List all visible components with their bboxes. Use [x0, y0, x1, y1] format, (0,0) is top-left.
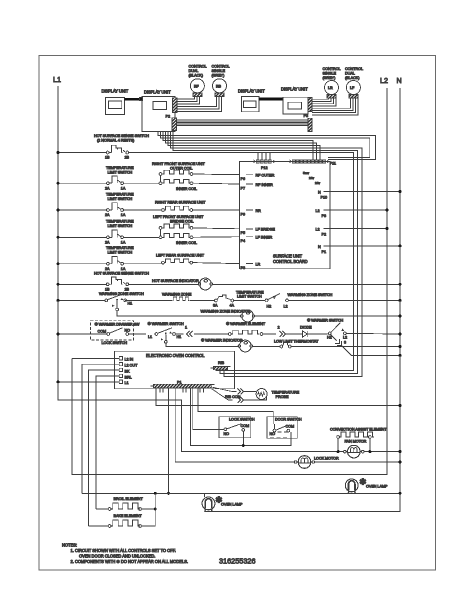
svg-text:COM: COM	[241, 424, 250, 428]
svg-text:P9: P9	[241, 212, 245, 216]
svg-text:N: N	[318, 191, 321, 195]
svg-text:CONTROL: CONTROL	[323, 67, 341, 71]
svg-text:L2: L2	[316, 228, 320, 232]
svg-text:2A: 2A	[105, 241, 110, 245]
svg-text:LIMIT SWITCH: LIMIT SWITCH	[108, 170, 133, 174]
svg-text:BAKE ELEMENT: BAKE ELEMENT	[114, 514, 143, 518]
svg-text:1. CIRCUIT SHOWN WITH ALL CON: 1. CIRCUIT SHOWN WITH ALL CONTROLS SET T…	[71, 548, 176, 553]
svg-text:✱ WARMER ELEMENT: ✱ WARMER ELEMENT	[226, 322, 266, 326]
svg-text:LOW LIMIT THERMOSTAT: LOW LIMIT THERMOSTAT	[274, 340, 319, 344]
svg-text:1A: 1A	[121, 241, 126, 245]
svg-text:RF OUTER: RF OUTER	[256, 174, 275, 178]
svg-text:WARMING ZONE SWITCH: WARMING ZONE SWITCH	[288, 293, 333, 297]
svg-text:TEMPERATURE: TEMPERATURE	[272, 390, 300, 394]
svg-text:2B: 2B	[125, 156, 130, 160]
svg-text:HOT SURFACE SENSE SWITCH: HOT SURFACE SENSE SWITCH	[94, 134, 149, 138]
svg-text:P1: P1	[177, 380, 181, 384]
svg-text:H2: H2	[327, 335, 332, 339]
svg-text:LEFT FRONT SURFACE UNIT: LEFT FRONT SURFACE UNIT	[153, 215, 204, 219]
svg-text:FAN MOTOR: FAN MOTOR	[345, 440, 367, 444]
svg-text:NO: NO	[125, 329, 131, 333]
svg-text:CONVECTION ASSIST ELEMENT: CONVECTION ASSIST ELEMENT	[330, 428, 387, 432]
svg-text:2A: 2A	[105, 213, 110, 217]
svg-text:LR: LR	[328, 86, 333, 90]
svg-text:✱ WARMER SWITCH: ✱ WARMER SWITCH	[148, 322, 185, 326]
svg-text:1B: 1B	[105, 156, 110, 160]
svg-text:DUAL: DUAL	[345, 72, 355, 76]
svg-text:LIMIT SWITCH: LIMIT SWITCH	[108, 251, 133, 255]
svg-text:TEMPERATURE: TEMPERATURE	[106, 219, 134, 223]
svg-text:WARMING ZONE: WARMING ZONE	[162, 293, 192, 297]
svg-text:LR: LR	[256, 262, 261, 266]
svg-text:NO: NO	[270, 432, 276, 436]
svg-text:PROBE: PROBE	[276, 395, 289, 399]
svg-text:L2 OUT: L2 OUT	[125, 364, 139, 368]
svg-text:LF INNER: LF INNER	[256, 235, 273, 239]
svg-text:DISPLAY UNIT: DISPLAY UNIT	[281, 86, 308, 91]
svg-text:N: N	[318, 245, 321, 249]
svg-text:NOTES:: NOTES:	[62, 543, 77, 548]
svg-text:P10: P10	[321, 196, 328, 200]
svg-text:P3: P3	[241, 266, 245, 270]
svg-text:BK: BK	[125, 369, 130, 373]
svg-text:P1: P1	[322, 250, 326, 254]
svg-text:RIGHT FRONT SURFACE UNIT: RIGHT FRONT SURFACE UNIT	[152, 162, 206, 166]
svg-text:3: 3	[344, 341, 346, 345]
svg-text:LIMIT SWITCH: LIMIT SWITCH	[237, 295, 262, 299]
svg-text:L1: L1	[125, 381, 129, 385]
svg-text:RIB: RIB	[218, 361, 225, 365]
svg-text:CONTROL: CONTROL	[345, 67, 363, 71]
svg-text:(2 NORMAL 4 RESTS): (2 NORMAL 4 RESTS)	[97, 139, 135, 143]
svg-text:LIMIT SWITCH: LIMIT SWITCH	[108, 224, 133, 228]
svg-text:TEMPERATURE: TEMPERATURE	[106, 166, 134, 170]
svg-text:L2 IN: L2 IN	[125, 358, 134, 362]
svg-text:1B: 1B	[105, 288, 110, 292]
svg-text:RR: RR	[256, 209, 262, 213]
svg-text:H1: H1	[128, 302, 133, 306]
svg-text:OVEN LAMP: OVEN LAMP	[221, 503, 243, 507]
svg-text:P2: P2	[166, 114, 170, 118]
svg-text:INNER COIL: INNER COIL	[176, 187, 197, 191]
svg-text:SINGLE: SINGLE	[323, 72, 337, 76]
svg-text:RF INNER: RF INNER	[256, 183, 274, 187]
svg-text:TEMPERATURE: TEMPERATURE	[106, 193, 134, 197]
svg-text:SINGLE: SINGLE	[212, 69, 226, 73]
svg-text:P3: P3	[304, 114, 308, 118]
svg-text:P12: P12	[261, 166, 268, 170]
svg-text:(GREY): (GREY)	[212, 74, 226, 78]
svg-text:3A: 3A	[213, 304, 218, 308]
svg-text:HOT SURFACE SENSE SWITCH: HOT SURFACE SENSE SWITCH	[94, 272, 149, 276]
svg-text:L1: L1	[53, 75, 61, 84]
svg-text:(BLACK): (BLACK)	[189, 74, 204, 78]
svg-text:L2: L2	[284, 305, 288, 309]
svg-text:2. COMPONENTS WITH ✱ DO NOT: 2. COMPONENTS WITH ✱ DO NOT APPEAR ON AL…	[71, 559, 188, 564]
svg-text:DISPLAY UNIT: DISPLAY UNIT	[144, 89, 171, 94]
svg-text:DISPLAY UNIT: DISPLAY UNIT	[238, 89, 265, 94]
svg-text:BROIL ELEMENT: BROIL ELEMENT	[114, 497, 144, 501]
svg-text:(BLACK): (BLACK)	[345, 76, 360, 80]
svg-text:WARMING ZONE SWITCH: WARMING ZONE SWITCH	[99, 292, 144, 296]
svg-text:1A: 1A	[121, 267, 126, 271]
svg-text:DOOR SWITCH: DOOR SWITCH	[275, 418, 302, 422]
svg-text:H1: H1	[177, 335, 182, 339]
svg-text:(GREY): (GREY)	[323, 76, 337, 80]
svg-text:L2: L2	[316, 209, 320, 213]
svg-text:CONTROL: CONTROL	[189, 65, 207, 69]
svg-text:P6: P6	[241, 177, 245, 181]
svg-text:RB: RB	[216, 85, 222, 89]
svg-text:2A: 2A	[105, 186, 110, 190]
svg-text:2B: 2B	[125, 288, 130, 292]
svg-text:2: 2	[278, 326, 280, 330]
svg-text:4A: 4A	[230, 304, 235, 308]
svg-text:1A: 1A	[121, 186, 126, 190]
svg-text:N: N	[397, 76, 402, 85]
svg-text:DISPLAY UNIT: DISPLAY UNIT	[102, 89, 129, 94]
svg-text:✱ WARMER INDICATOR: ✱ WARMER INDICATOR	[201, 338, 243, 342]
svg-text:LEFT REAR SURFACE UNIT: LEFT REAR SURFACE UNIT	[156, 253, 205, 257]
svg-text:1A: 1A	[121, 213, 126, 217]
svg-text:HOT SURFACE INDICATOR: HOT SURFACE INDICATOR	[152, 279, 199, 283]
svg-text:INNER COIL: INNER COIL	[176, 241, 197, 245]
svg-text:OVEN LAMP: OVEN LAMP	[366, 484, 388, 488]
svg-text:24v: 24v	[309, 176, 314, 180]
svg-text:OVEN DOOR CLOSED AND UNLOCKED.: OVEN DOOR CLOSED AND UNLOCKED.	[79, 554, 155, 559]
svg-text:P5: P5	[241, 231, 245, 235]
svg-text:L1: L1	[148, 335, 152, 339]
svg-text:ELECTRONIC OVEN CONTROL: ELECTRONIC OVEN CONTROL	[146, 353, 205, 358]
svg-text:SURFACE UNIT: SURFACE UNIT	[273, 254, 303, 259]
svg-text:2A: 2A	[105, 267, 110, 271]
svg-text:P7: P7	[241, 186, 245, 190]
svg-text:P4: P4	[241, 239, 245, 243]
svg-text:CONTROL BOARD: CONTROL BOARD	[273, 259, 308, 264]
svg-text:COM: COM	[98, 329, 107, 333]
svg-text:316255326: 316255326	[219, 556, 256, 565]
svg-text:5mv: 5mv	[303, 171, 309, 175]
svg-text:LIMIT SWITCH: LIMIT SWITCH	[108, 197, 133, 201]
svg-text:RIGHT REAR SURFACE UNIT: RIGHT REAR SURFACE UNIT	[155, 201, 206, 205]
svg-text:BRIDGE COIL: BRIDGE COIL	[170, 220, 194, 224]
svg-text:24v: 24v	[315, 181, 320, 185]
svg-text:LOCK SWITCH: LOCK SWITCH	[229, 417, 255, 421]
svg-text:LOCK MOTOR: LOCK MOTOR	[314, 456, 339, 460]
svg-text:DUAL: DUAL	[189, 69, 199, 73]
svg-text:P11: P11	[330, 162, 336, 166]
svg-text:CONTROL: CONTROL	[212, 65, 230, 69]
svg-text:DIODE: DIODE	[300, 325, 312, 329]
svg-text:1: 1	[185, 326, 187, 330]
svg-text:LOCK SWITCH: LOCK SWITCH	[102, 341, 128, 345]
svg-text:LF BRIDGE: LF BRIDGE	[256, 228, 276, 232]
svg-text:P8: P8	[322, 214, 326, 218]
svg-text:TEMPERATURE: TEMPERATURE	[106, 246, 134, 250]
svg-text:✱ WARMER SWITCH: ✱ WARMER SWITCH	[307, 319, 344, 323]
svg-text:BRL: BRL	[125, 375, 132, 379]
svg-text:✱ WARMER DRAWER SW: ✱ WARMER DRAWER SW	[95, 323, 140, 327]
svg-text:P2: P2	[322, 233, 326, 237]
svg-text:L2: L2	[343, 335, 347, 339]
svg-text:NO: NO	[224, 432, 230, 436]
svg-text:H2: H2	[267, 305, 272, 309]
svg-text:L2: L2	[380, 76, 388, 85]
